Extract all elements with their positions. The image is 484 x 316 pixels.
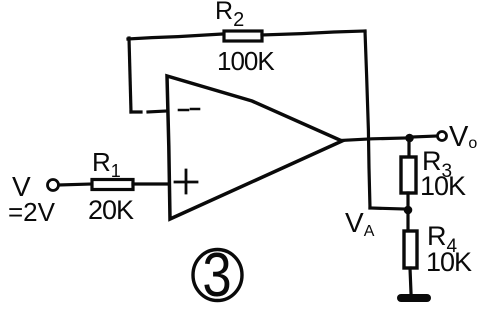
figure number circle 3 [193, 250, 242, 301]
wire R1 to plus input [133, 182, 168, 185]
wire R3 to node VA [406, 193, 409, 206]
ground [401, 294, 427, 302]
op-amp U1 [167, 76, 342, 219]
terminal input [48, 180, 59, 191]
plus input mark [175, 170, 197, 193]
wire R4 to ground [410, 268, 411, 293]
wire feedback right vertical [365, 31, 370, 208]
minus input mark [179, 109, 199, 110]
svg-text:20K: 20K [88, 195, 134, 225]
resistor R1 [92, 180, 133, 190]
svg-text:R2: R2 [215, 0, 244, 31]
resistor R3 [401, 157, 416, 193]
resistor R2 [224, 31, 262, 41]
wire VA to R4 [406, 214, 409, 231]
wire output to terminal [413, 136, 437, 137]
resistor R4 [404, 231, 417, 268]
wire output node to R3 [407, 142, 410, 157]
svg-text:Vo: Vo [449, 121, 477, 153]
wire VA horizontal [370, 208, 405, 209]
wire input to R1 [59, 184, 92, 185]
svg-text:10K: 10K [426, 247, 472, 277]
wire inverting input segment [131, 111, 166, 112]
svg-text:3: 3 [202, 241, 231, 310]
svg-text:R1: R1 [92, 147, 121, 181]
wire feedback top-left horizontal [128, 34, 223, 39]
wire output [341, 138, 406, 141]
wire feedback left vertical [129, 38, 131, 112]
wire R2 right to corner [262, 31, 365, 35]
svg-text:10K: 10K [420, 171, 466, 201]
terminal Vo [438, 132, 447, 141]
svg-text:100K: 100K [217, 46, 275, 76]
node VA junction [404, 206, 413, 215]
svg-text:=2V: =2V [8, 197, 56, 227]
svg-text:VA: VA [345, 207, 375, 240]
node output junction [405, 134, 414, 143]
